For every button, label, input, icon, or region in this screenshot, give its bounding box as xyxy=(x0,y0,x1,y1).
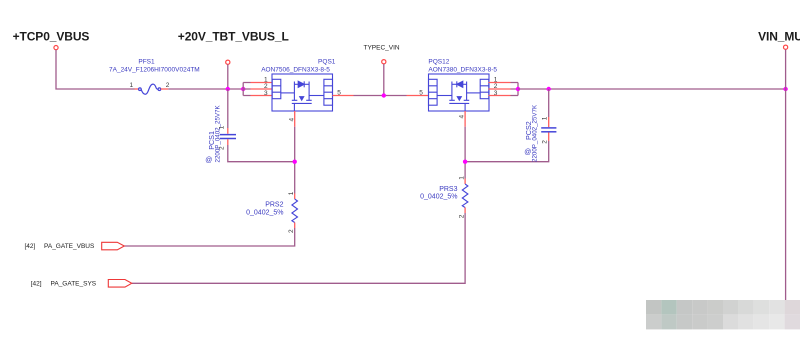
svg-text:[42]: [42] xyxy=(25,243,36,250)
watermark mosaic xyxy=(646,300,800,329)
wire PQS1 pin5 stub xyxy=(333,95,354,97)
svg-text:2: 2 xyxy=(166,82,170,89)
capacitor PCS2 xyxy=(541,128,556,132)
svg-text:1: 1 xyxy=(542,116,549,120)
wire PRS2 pin2 stub xyxy=(294,223,296,229)
svg-text:2200P_0402_25V7K: 2200P_0402_25V7K xyxy=(532,104,539,162)
wire PCS1 pin1 stub xyxy=(227,128,229,134)
svg-text:3: 3 xyxy=(264,90,268,97)
svg-text:PRS2: PRS2 xyxy=(265,202,283,209)
svg-text:+20V_TBT_VBUS_L: +20V_TBT_VBUS_L xyxy=(178,29,289,43)
wire PRS3 pin2 stub xyxy=(464,208,466,214)
svg-text:+TCP0_VBUS: +TCP0_VBUS xyxy=(13,29,90,43)
wire PRS3 to PA_GATE_SYS xyxy=(132,213,465,283)
capacitor PCS1 xyxy=(220,135,236,139)
svg-text:7A_24V_F1206HI7000V024TM: 7A_24V_F1206HI7000V024TM xyxy=(109,67,200,74)
junction PCS1/PRS2 node xyxy=(293,160,297,164)
wire PCS2 pin1 stub xyxy=(548,117,550,127)
wire fuse to PQS1 bus xyxy=(168,88,243,90)
svg-text:TYPEC_VIN: TYPEC_VIN xyxy=(364,45,400,52)
wire PQS1 pin bus vertical xyxy=(242,83,244,96)
junction PCS2 tap xyxy=(547,87,551,91)
wire PQS12 bus vertical xyxy=(511,83,519,96)
junction PCS2/PRS3 node xyxy=(463,160,467,164)
node +20V_TBT_VBUS_L port circle xyxy=(226,60,230,64)
svg-text:0_0402_5%: 0_0402_5% xyxy=(420,193,457,200)
connector PA_GATE_VBUS off-page arrow xyxy=(102,242,125,250)
wire PQS12 pin4 to PRS3 xyxy=(464,127,466,179)
wire fuse pin1 stub xyxy=(135,88,139,90)
wire PQS1 pin4 stub xyxy=(294,111,296,127)
svg-text:PQS1: PQS1 xyxy=(318,58,336,65)
wire TYPEC_VIN drop xyxy=(383,64,385,96)
wire right rail xyxy=(518,88,786,90)
svg-text:PA_GATE_VBUS: PA_GATE_VBUS xyxy=(44,243,95,250)
svg-text:[42]: [42] xyxy=(31,280,42,287)
wire +20V drop to rail xyxy=(227,64,229,89)
svg-text:5: 5 xyxy=(419,90,423,97)
wire VIN_MUX vertical xyxy=(785,49,787,300)
svg-text:2: 2 xyxy=(219,146,226,150)
svg-text:PFS1: PFS1 xyxy=(138,59,155,66)
svg-text:PQS12: PQS12 xyxy=(428,58,449,65)
junction at +20V rail xyxy=(226,87,230,91)
wire PCS2 pin2 stub xyxy=(548,133,550,142)
node +TCP0_VBUS port circle xyxy=(54,46,58,50)
wire fuse pin2 stub xyxy=(161,88,169,90)
node TYPEC_VIN port circle xyxy=(382,60,386,64)
wire PCS1 to PRS2 node xyxy=(228,145,295,162)
wire PQS12 pin5 stub xyxy=(407,95,429,97)
wire PQS1 pin4 to PRS2 xyxy=(294,127,296,194)
svg-text:1: 1 xyxy=(458,176,465,180)
svg-text:2: 2 xyxy=(458,214,465,218)
svg-text:1: 1 xyxy=(129,82,133,89)
svg-text:@: @ xyxy=(205,157,212,164)
wire PQS1 pins 1-3 stubs (salmon) xyxy=(251,83,273,96)
svg-text:2200P_0402_25V7K: 2200P_0402_25V7K xyxy=(214,105,221,163)
wire PRS2 pin1 stub xyxy=(294,194,296,200)
wire middle rail PQS1 to PQS12 xyxy=(354,95,407,97)
svg-text:PA_GATE_SYS: PA_GATE_SYS xyxy=(51,280,97,287)
junction PQS12 bus exit xyxy=(516,87,520,91)
connector PA_GATE_SYS off-page arrow xyxy=(108,280,131,288)
resistor PRS3 xyxy=(462,184,468,208)
svg-text:2: 2 xyxy=(542,140,549,144)
junction VIN_MUX tap xyxy=(783,87,787,91)
svg-text:VIN_MUX: VIN_MUX xyxy=(758,29,800,43)
junction at PQS1 bus entry xyxy=(241,87,245,91)
capacitor PCS1 branch wire upper xyxy=(227,89,229,128)
transistor PQS12 (mirrored) xyxy=(429,74,490,111)
wire PRS3 pin1 stub xyxy=(464,179,466,185)
svg-text:1: 1 xyxy=(288,191,295,195)
transistor PQS1 xyxy=(272,74,333,111)
wire PQS12 pins 1-3 stubs (salmon) xyxy=(489,83,511,96)
wire PQS12 pin4 stub xyxy=(464,111,466,127)
fuse PFS1 xyxy=(139,84,161,94)
svg-text:AON7506_DFN3X3-8-5: AON7506_DFN3X3-8-5 xyxy=(261,67,330,74)
svg-text:0_0402_5%: 0_0402_5% xyxy=(246,210,283,217)
wire PCS2 to PRS3 node xyxy=(465,141,549,162)
svg-text:AON7380_DFN3X3-8-5: AON7380_DFN3X3-8-5 xyxy=(428,67,497,74)
svg-text:@: @ xyxy=(524,149,531,156)
node VIN_MUX port circle xyxy=(784,45,788,49)
svg-text:2: 2 xyxy=(288,229,295,233)
wire PQS1 pin1 stub xyxy=(243,83,250,96)
wire +TCP0_VBUS down and right to fuse pin1 xyxy=(56,50,135,89)
svg-text:1: 1 xyxy=(219,125,226,129)
svg-text:PRS3: PRS3 xyxy=(439,186,457,193)
junction TYPEC_VIN on middle rail xyxy=(382,93,386,97)
wire PRS2 to PA_GATE_VBUS xyxy=(124,228,294,246)
resistor PRS2 xyxy=(292,199,298,223)
wire PCS1 pin2 stub xyxy=(227,139,229,145)
capacitor PCS2 branch wire upper xyxy=(548,89,550,117)
